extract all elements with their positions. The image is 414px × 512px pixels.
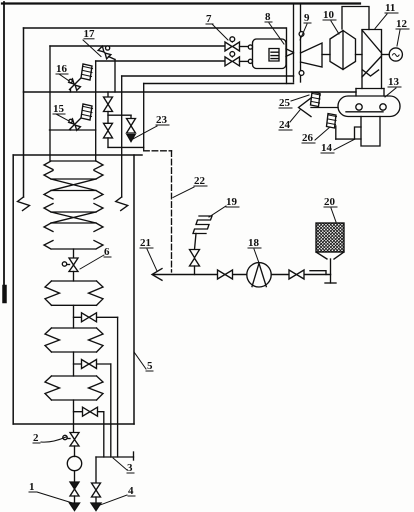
wire V2 drop [110, 364, 112, 457]
leader 15 [56, 114, 68, 121]
label 22 [194, 175, 206, 187]
relief valve 16 [69, 79, 81, 93]
leader 20 [331, 208, 336, 222]
HX5 top edge [52, 327, 97, 329]
X cross HX2-HX3 [51, 212, 96, 223]
svg-text:26: 26 [302, 132, 314, 144]
wire valve column B [130, 115, 132, 118]
torn stub left of HX2 [18, 197, 30, 211]
vent flag 25 [311, 92, 321, 107]
steam pipe 9 left [293, 5, 295, 82]
wire P3 downcomer to HX1 right [95, 61, 97, 161]
wire loop 5 bottom [13, 423, 134, 425]
label 25 [279, 97, 291, 109]
label 5 [147, 360, 153, 372]
wire P4 riser [121, 76, 123, 197]
svg-text:14: 14 [321, 142, 333, 154]
torn stub right of HX2 [116, 197, 128, 211]
feed pump circle [67, 456, 81, 470]
svg-text:2: 2 [33, 432, 39, 444]
condensate pump 14 body [355, 127, 362, 139]
wire collector drop [95, 457, 97, 483]
label 10 [323, 9, 335, 21]
HP turbine 10 [330, 31, 356, 70]
wire valve19 to line21 [194, 266, 196, 275]
HX4 bottom edge [52, 304, 97, 306]
valve 18a [218, 270, 233, 279]
label 7 [206, 13, 212, 25]
wire V1 drop [117, 317, 119, 457]
discharge arrow 4 [91, 503, 101, 511]
svg-text:4: 4 [128, 485, 134, 497]
outlet end tick [325, 282, 336, 284]
label 26 [302, 132, 314, 144]
flow arrow 21 [152, 269, 162, 281]
sample cooler 19 coil [193, 216, 212, 234]
pump 18 [247, 263, 271, 287]
svg-text:8: 8 [265, 11, 271, 23]
valve B [127, 119, 136, 134]
drain branch V1 [74, 316, 118, 318]
condensate outlet line to arrow 24 [311, 107, 338, 109]
wire HX6 outlet [73, 400, 75, 432]
drain branch V3 [74, 411, 104, 413]
pipe 9 drain circle upper [299, 32, 304, 37]
wire valve6 to HX4 [73, 272, 75, 282]
exhaust neck [356, 89, 384, 97]
HX4 top edge [52, 280, 97, 282]
valve 6 motorized [62, 258, 78, 272]
label 14 [321, 142, 333, 154]
svg-text:16: 16 [56, 63, 68, 75]
leader 22 [173, 187, 194, 198]
tank 20 funnel [316, 252, 344, 259]
wire HX5-HX6 [73, 352, 75, 376]
svg-text:22: 22 [194, 175, 206, 187]
wire HX3 outlet [73, 249, 75, 258]
HX6 top edge [52, 375, 97, 377]
wire Lc lower header [13, 154, 142, 156]
HX6 bottom edge [52, 399, 97, 401]
valve 1v top solid [70, 482, 79, 489]
page border left lower blob [2, 287, 7, 301]
wire cross branch to column B [108, 114, 131, 116]
leader 26 [315, 127, 330, 140]
wire riser to flag 26 [335, 126, 337, 139]
valve 19v [190, 250, 200, 267]
svg-text:20: 20 [324, 196, 336, 208]
vent flag 26 [327, 114, 337, 129]
svg-text:1: 1 [29, 481, 35, 493]
vent flag 16 [81, 64, 93, 80]
valve 4v [92, 483, 101, 497]
wire P2 downcomer to HX1 left [49, 46, 51, 161]
shaft cone to HP [322, 54, 330, 56]
valve 17 angled safety valve [98, 46, 111, 59]
label 6 [104, 246, 110, 258]
flow arrow 24 [299, 98, 312, 117]
dashed line 22 vertical [171, 151, 173, 272]
wire P2 header [50, 45, 225, 47]
X cross HX1-HX2 [51, 179, 96, 191]
collector end tick [133, 452, 135, 460]
tank outlet drop [330, 259, 332, 283]
HX2 bottom edge [44, 204, 103, 213]
label 1 [29, 481, 35, 493]
svg-text:13: 13 [388, 76, 400, 88]
generator 12 [389, 48, 402, 61]
wire pump outlet [74, 471, 76, 482]
wire valve 17 outlet [109, 57, 116, 60]
drain collector [96, 456, 134, 458]
valve 1v bottom open [70, 489, 79, 496]
svg-text:19: 19 [226, 196, 238, 208]
leader 9 [300, 24, 307, 40]
box 15/16 bottom line [50, 129, 96, 131]
leader 18 [254, 249, 259, 263]
leader 2 [41, 437, 66, 442]
valve V2 [82, 360, 97, 369]
HX2 top edge [44, 191, 103, 200]
leader 6 [80, 255, 104, 269]
port circle a [248, 45, 252, 49]
valve 18b [289, 270, 304, 279]
valve V1 [82, 313, 97, 322]
shaft LP to generator [382, 54, 390, 56]
label 11 [385, 2, 395, 14]
leader 7 [212, 24, 228, 40]
leader 19 [209, 206, 226, 217]
page border left [3, 2, 5, 298]
wire pump14 outlet [336, 138, 355, 140]
steam chest 8 [253, 39, 287, 69]
steam pipe 9 right [300, 5, 302, 82]
wire loop 5 right side [133, 155, 135, 424]
wire chest outlet wedge [286, 49, 294, 57]
label 18 [248, 237, 260, 249]
leader 1 [37, 492, 74, 504]
wire valve2 to pump [74, 446, 76, 457]
svg-text:21: 21 [140, 237, 151, 249]
wire A column outlet [107, 138, 109, 148]
svg-text:5: 5 [147, 360, 153, 372]
svg-text:10: 10 [323, 9, 335, 21]
wire P3 header [96, 60, 225, 62]
svg-text:9: 9 [304, 12, 310, 24]
label 3 [127, 462, 133, 474]
svg-text:11: 11 [385, 2, 395, 14]
wire valve column A [107, 92, 109, 97]
wire drain to right [108, 146, 144, 148]
vent flag 15 [81, 104, 93, 120]
label 24 [279, 119, 291, 131]
leader 11 [375, 14, 387, 29]
wire P4 header [122, 75, 294, 77]
label 17 [84, 28, 96, 40]
leader 25 [291, 95, 309, 101]
leader 4 [100, 495, 127, 505]
leader 16 [59, 74, 69, 81]
wire coil to valve 19 [195, 234, 197, 250]
wire Lb long drain line to condenser [24, 91, 357, 93]
wire P1 drop to steam chest [286, 28, 288, 84]
hotwell riser 14 [361, 117, 380, 147]
svg-text:3: 3 [127, 462, 133, 474]
condenser 13 shell [338, 96, 400, 117]
pipe 9 drain circle lower [299, 71, 304, 76]
label 15 [53, 103, 65, 115]
valve V3 [83, 407, 98, 416]
wire P1 main steam header [24, 27, 287, 29]
label 21 [140, 237, 151, 249]
label 13 [388, 76, 400, 88]
wire valve7a to chest [240, 46, 249, 48]
LP turbine 11 [362, 30, 382, 89]
label 9 [304, 12, 310, 24]
svg-text:18: 18 [248, 237, 260, 249]
wire loop 5 left side [12, 155, 14, 424]
label 16 [56, 63, 68, 75]
wire valve7b to chest [240, 60, 249, 62]
svg-text:24: 24 [279, 119, 291, 131]
leader 3 [113, 458, 127, 470]
HX3 bottom edge [44, 241, 103, 250]
wire to arrow 1 [74, 496, 76, 503]
steam chest inner gear [269, 49, 279, 62]
shaft HP to LP [356, 54, 363, 56]
crossover pipe [342, 7, 369, 30]
svg-text:7: 7 [206, 13, 212, 25]
condenser circle left [356, 104, 362, 110]
wire valve 17 drop [114, 60, 116, 93]
inlet cone [301, 43, 323, 67]
valve A1 [104, 97, 113, 112]
label 20 [324, 196, 336, 208]
leader 24 [290, 110, 300, 122]
condensate main line 21 [154, 274, 331, 276]
leader 14 [334, 139, 355, 150]
valve 2 motorized [63, 433, 79, 447]
label 19 [226, 196, 238, 208]
leader 10 [331, 21, 339, 34]
wire P1 left downcomer [23, 28, 25, 197]
wire La drain header [144, 83, 294, 85]
discharge arrow under valve B [127, 135, 135, 142]
wire HX4-HX5 [73, 305, 75, 328]
HX5 bottom edge [52, 351, 97, 353]
leader 8 [269, 23, 284, 44]
wire to arrow 4 [95, 497, 97, 503]
dashed line 22 horizontal [144, 150, 172, 152]
label 4 [128, 485, 134, 497]
condenser level line [346, 111, 383, 113]
label 8 [265, 11, 271, 23]
valve 7a motorized [225, 37, 240, 51]
tank 20 shell [316, 223, 344, 252]
discharge arrow 1 [70, 503, 80, 511]
leader 23 [133, 126, 157, 139]
page border top [2, 2, 360, 4]
label 2 [33, 432, 39, 444]
svg-text:6: 6 [104, 246, 110, 258]
port circle b [248, 59, 252, 63]
HX1 bottom edge [44, 171, 103, 180]
leader 17 [83, 40, 101, 57]
drain branch V2 [74, 363, 111, 365]
leader 5 [134, 352, 146, 369]
leader 13 [385, 88, 396, 97]
wire between A valves [107, 112, 109, 124]
label 12 [396, 18, 408, 30]
svg-text:15: 15 [53, 103, 65, 115]
leader 21 [147, 249, 157, 271]
leader 12 [397, 30, 400, 46]
exhaust flange [356, 88, 384, 90]
svg-text:23: 23 [156, 114, 168, 126]
svg-text:12: 12 [396, 18, 408, 30]
valve A2 [104, 123, 113, 138]
svg-text:25: 25 [279, 97, 291, 109]
HX1 top edge [44, 161, 103, 170]
wire La drop [143, 84, 145, 151]
relief valve 15 [69, 119, 81, 131]
HX3 top edge [44, 223, 103, 232]
svg-text:17: 17 [84, 28, 96, 40]
label 23 [156, 114, 168, 126]
valve 7b motorized [225, 52, 240, 66]
condenser circle right [380, 104, 386, 110]
wire V3 drop [103, 412, 105, 457]
pipe jog at tank inlet [310, 271, 326, 275]
